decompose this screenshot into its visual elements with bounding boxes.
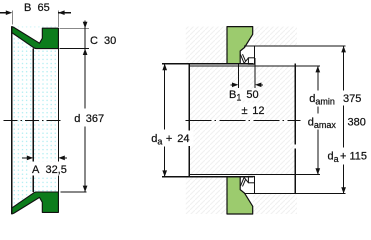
svg-text:50: 50 <box>246 89 258 101</box>
svg-text:A 32,5: A 32,5 <box>32 164 67 176</box>
svg-text:375: 375 <box>343 93 361 105</box>
svg-text:±: ± <box>242 105 248 117</box>
svg-text:12: 12 <box>252 105 264 117</box>
svg-text:d: d <box>74 113 80 125</box>
svg-text:24: 24 <box>177 133 189 145</box>
svg-text:C 30: C 30 <box>90 35 116 47</box>
svg-text:+: + <box>166 133 172 145</box>
svg-text:115: 115 <box>350 151 368 163</box>
svg-text:380: 380 <box>348 117 366 129</box>
svg-text:+: + <box>340 151 346 163</box>
svg-text:B 65: B 65 <box>24 2 50 14</box>
svg-text:367: 367 <box>86 113 104 125</box>
